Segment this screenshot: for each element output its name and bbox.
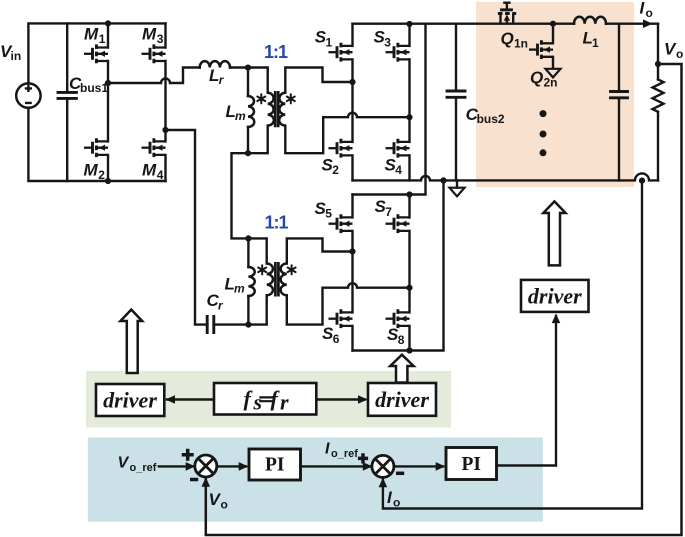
transistor S4 [386, 139, 410, 158]
svg-text:1: 1 [326, 35, 333, 49]
capacitor Cr [207, 317, 214, 333]
svg-text:o_ref: o_ref [130, 462, 157, 474]
inductor Lr [200, 61, 230, 67]
inductor L1 [574, 17, 606, 24]
transistor S6 [329, 309, 353, 328]
shaded driver region (green) [86, 371, 451, 428]
svg-text:Q: Q [530, 68, 543, 87]
svg-text:1: 1 [99, 32, 106, 46]
wire: input bottom rail [28, 108, 165, 181]
svg-text:o_ref: o_ref [331, 448, 358, 460]
capacitor Cout [618, 24, 620, 181]
svg-text:V: V [118, 455, 130, 472]
box fs=fr [214, 383, 316, 415]
capacitor Cbus2 [455, 24, 457, 181]
block arrow above driver1 [120, 310, 142, 373]
transistor S1 [329, 43, 353, 62]
wire: fs to driver1 [167, 398, 214, 400]
svg-text:o: o [221, 498, 228, 512]
svg-text:Q: Q [501, 29, 514, 48]
svg-text:M: M [84, 161, 99, 180]
svg-text:bus2: bus2 [477, 112, 505, 126]
transistor S2 [329, 139, 353, 158]
transistor Q1n (horizontal, in top rail) [498, 3, 516, 24]
transformer T2 [258, 262, 295, 297]
box PI1 [249, 449, 301, 480]
svg-text:M: M [142, 161, 157, 180]
wire: S7/S8 leg [408, 195, 410, 351]
svg-text:o: o [393, 495, 400, 509]
transistor S8 [386, 309, 410, 328]
svg-text:7: 7 [385, 205, 392, 219]
wire: T1 secondary bottom to S3/S4 mid [285, 113, 409, 154]
wire: bus link bottom (bottom rail to lower bridge bottom) [353, 180, 444, 350]
transistor M4 [142, 138, 166, 157]
svg-text:m: m [234, 282, 245, 296]
wire: Lr to transformer T1 primary top [230, 68, 268, 93]
module dots (parallel modules) [540, 110, 547, 156]
wire: output bottom rail [353, 173, 659, 180]
svg-text:1:1: 1:1 [264, 213, 288, 233]
inductor Lm1 [247, 68, 249, 154]
svg-text:bus1: bus1 [80, 81, 108, 95]
wire: output top rail [353, 23, 659, 25]
summing junction 1 [195, 455, 217, 477]
wire: M3/M4 leg [164, 23, 166, 181]
svg-text:2: 2 [98, 168, 105, 182]
box driver3 [521, 280, 589, 312]
ground below Cbus2 [456, 180, 458, 187]
svg-text:1n: 1n [514, 37, 528, 51]
arrowheads [166, 19, 653, 487]
wire: T1 secondary top to S1/S2 mid [285, 68, 352, 93]
svg-text:1: 1 [592, 36, 599, 50]
svg-text:4: 4 [157, 168, 164, 182]
transistor Q2n [529, 40, 553, 59]
wire: output right with load [657, 24, 659, 181]
svg-text:2: 2 [332, 163, 339, 177]
box PI2 [446, 448, 497, 480]
wire: Cr to phase B [166, 130, 208, 325]
wire: Vo feedback [206, 64, 682, 535]
summing junction 2 [372, 455, 394, 477]
svg-text:1:1: 1:1 [264, 42, 288, 62]
wire: input top rail [28, 23, 165, 83]
wire: Vo_ref to sum1 [159, 465, 193, 467]
svg-text:I: I [325, 441, 330, 458]
wire: T2 primary bottom to Cr [214, 295, 267, 324]
wire: Io feedback [383, 180, 642, 508]
wire: S5/S6 leg [351, 195, 353, 351]
ground below Q2n [546, 69, 561, 78]
wire: S1/S2 leg [351, 24, 353, 181]
svg-text:m: m [235, 109, 246, 123]
svg-text:3: 3 [384, 35, 391, 49]
transistor M1 [84, 44, 108, 63]
wire: sum1 to PI1 [216, 465, 246, 467]
transistor S3 [386, 43, 410, 62]
wire: T2 secondary top to S5/S6 mid [287, 238, 353, 263]
svg-text:6: 6 [333, 332, 340, 346]
svg-text:r: r [218, 299, 224, 313]
wire: Q2n leg [552, 24, 554, 68]
wire: T2 secondary bottom to S7/S8 mid [287, 283, 410, 324]
svg-text:4: 4 [395, 163, 402, 177]
wire: S3/S4 leg [408, 24, 410, 181]
svg-text:3: 3 [157, 32, 164, 46]
svg-text:r: r [280, 390, 289, 415]
shaded control region (blue) [88, 437, 543, 521]
svg-text:M: M [142, 25, 157, 44]
svg-text:o: o [646, 6, 653, 20]
ground at Cbus2 [450, 188, 465, 197]
svg-text:driver: driver [375, 387, 429, 412]
block arrow above driver3 [543, 201, 565, 265]
wire: M1/M2 leg [107, 23, 109, 181]
transistor S7 [386, 214, 410, 233]
transistor S5 [329, 214, 353, 233]
wire: phase A to Lr [108, 68, 200, 84]
svg-text:2n: 2n [544, 76, 558, 90]
capacitor Cbus1 [66, 23, 68, 181]
svg-text:PI: PI [461, 454, 481, 475]
box driver1 [96, 384, 164, 416]
svg-text:5: 5 [325, 207, 332, 221]
resistor load [653, 79, 664, 111]
wire: fs to driver2 [316, 398, 365, 400]
shaded module region (orange) [476, 2, 634, 187]
svg-text:M: M [84, 25, 99, 44]
svg-text:driver: driver [528, 284, 582, 309]
box driver2 [368, 383, 436, 416]
wire: PI1 to sum2 [301, 465, 371, 467]
svg-text:PI: PI [265, 454, 285, 475]
source Vin [16, 83, 40, 107]
inductor Lm2 [247, 238, 249, 324]
transistor M2 [84, 138, 108, 157]
wire: sum2 to PI2 [393, 465, 443, 467]
transformer T1 [257, 91, 295, 127]
wire: PI2 to driver3 [497, 316, 557, 466]
svg-text:8: 8 [398, 333, 405, 347]
wire: T1 primary bottom / series link down to T2 [232, 126, 268, 264]
svg-text:r: r [219, 73, 225, 87]
transistor M3 [142, 44, 166, 63]
svg-text:driver: driver [103, 388, 157, 413]
wire: bus link top (upper rail to lower bridge top) [353, 24, 426, 195]
svg-text:o: o [676, 47, 683, 61]
block arrow above driver2 [390, 355, 413, 383]
svg-text:in: in [11, 49, 22, 63]
